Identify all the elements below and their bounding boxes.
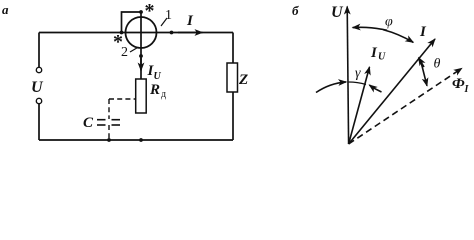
wire right lower — [232, 92, 234, 140]
impedance Z — [227, 63, 238, 92]
vector U axis — [347, 7, 348, 145]
terminal 2 dot — [139, 54, 143, 58]
svg-text:U: U — [331, 4, 344, 21]
svg-text:1: 1 — [165, 8, 172, 23]
svg-text:Z: Z — [238, 72, 248, 88]
svg-text:U: U — [31, 79, 44, 96]
svg-text:а: а — [2, 2, 9, 17]
transformer U1 circle — [126, 17, 157, 48]
vector IU — [349, 67, 370, 144]
wire left upper — [38, 33, 40, 68]
angle theta arrow — [419, 58, 425, 67]
svg-text:I: I — [370, 45, 378, 61]
svg-text:I: I — [464, 84, 470, 95]
capacitor C plates — [97, 119, 106, 121]
wire left lower — [38, 104, 40, 140]
wire top — [39, 32, 233, 34]
svg-text:R: R — [149, 82, 160, 98]
capacitance C dashed branch — [109, 98, 136, 100]
junction left of circle — [120, 31, 124, 35]
svg-text:б: б — [292, 3, 299, 18]
terminal upper — [36, 67, 41, 72]
vector I — [349, 39, 435, 144]
svg-text:I: I — [186, 13, 194, 29]
angle gamma arc — [316, 82, 346, 93]
terminal lower — [36, 98, 41, 103]
op coil loop wire — [122, 12, 142, 33]
svg-text:φ: φ — [385, 15, 393, 30]
svg-text:Ф: Ф — [452, 76, 465, 92]
svg-text:U: U — [154, 71, 162, 82]
coil vertical line — [140, 12, 142, 79]
current IU arrow — [140, 58, 142, 71]
svg-text:C: C — [83, 115, 94, 131]
terminal 1 dot — [170, 31, 174, 35]
svg-text:2: 2 — [121, 45, 128, 60]
vector Phi I dashed — [349, 68, 462, 144]
angle phi arc — [353, 27, 387, 30]
junction top of coil — [139, 10, 143, 14]
resistor Rd — [136, 79, 147, 113]
svg-text:θ: θ — [434, 57, 441, 72]
junction cap bottom — [107, 138, 111, 142]
wire bottom — [39, 139, 233, 141]
svg-text:д: д — [161, 89, 166, 100]
svg-text:γ: γ — [355, 66, 361, 81]
svg-text:I: I — [419, 24, 427, 40]
current I arrow — [178, 32, 203, 34]
svg-text:U: U — [378, 52, 386, 63]
junction Rd bottom — [139, 138, 143, 142]
wire right upper — [232, 33, 234, 64]
